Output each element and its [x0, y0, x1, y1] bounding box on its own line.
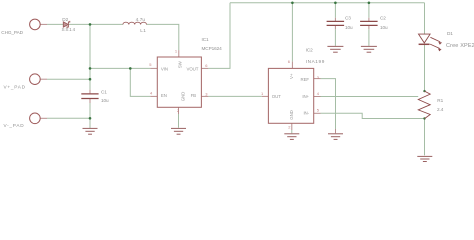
- svg-text:C1: C1: [101, 90, 107, 95]
- svg-text:IN+: IN+: [302, 94, 309, 99]
- svg-text:10u: 10u: [101, 98, 109, 103]
- svg-text:D2: D2: [62, 17, 68, 22]
- svg-text:2.4: 2.4: [437, 107, 444, 112]
- svg-text:FB: FB: [191, 93, 197, 98]
- svg-text:10u: 10u: [380, 25, 388, 30]
- svg-text:OUT: OUT: [272, 94, 281, 99]
- svg-text:10u: 10u: [345, 25, 353, 30]
- svg-text:Cree XPE2: Cree XPE2: [446, 43, 474, 49]
- svg-text:MCP1624: MCP1624: [202, 46, 223, 51]
- svg-text:GND: GND: [289, 110, 294, 119]
- svg-text:L1: L1: [140, 28, 146, 33]
- svg-text:C3: C3: [345, 16, 351, 21]
- svg-text:V-_PAD: V-_PAD: [4, 123, 25, 128]
- svg-text:C2: C2: [380, 16, 386, 21]
- svg-text:IC2: IC2: [306, 47, 313, 52]
- svg-text:IC1: IC1: [202, 37, 209, 42]
- svg-text:VIN: VIN: [161, 67, 168, 72]
- svg-text:4.7u: 4.7u: [136, 17, 146, 22]
- svg-text:R1: R1: [437, 98, 443, 103]
- svg-text:V+_PAD: V+_PAD: [4, 84, 26, 89]
- svg-text:VOUT: VOUT: [187, 67, 199, 72]
- svg-text:INA199: INA199: [306, 59, 325, 64]
- svg-text:GND: GND: [181, 92, 186, 101]
- svg-text:D1: D1: [447, 31, 453, 36]
- svg-text:IN-: IN-: [303, 111, 309, 116]
- svg-text:SS14: SS14: [62, 27, 76, 32]
- svg-text:V+: V+: [289, 73, 294, 79]
- svg-text:SW: SW: [177, 60, 182, 68]
- svg-text:EN: EN: [161, 93, 167, 98]
- svg-text:CHG_PAD: CHG_PAD: [1, 30, 23, 35]
- svg-text:REF: REF: [301, 77, 310, 82]
